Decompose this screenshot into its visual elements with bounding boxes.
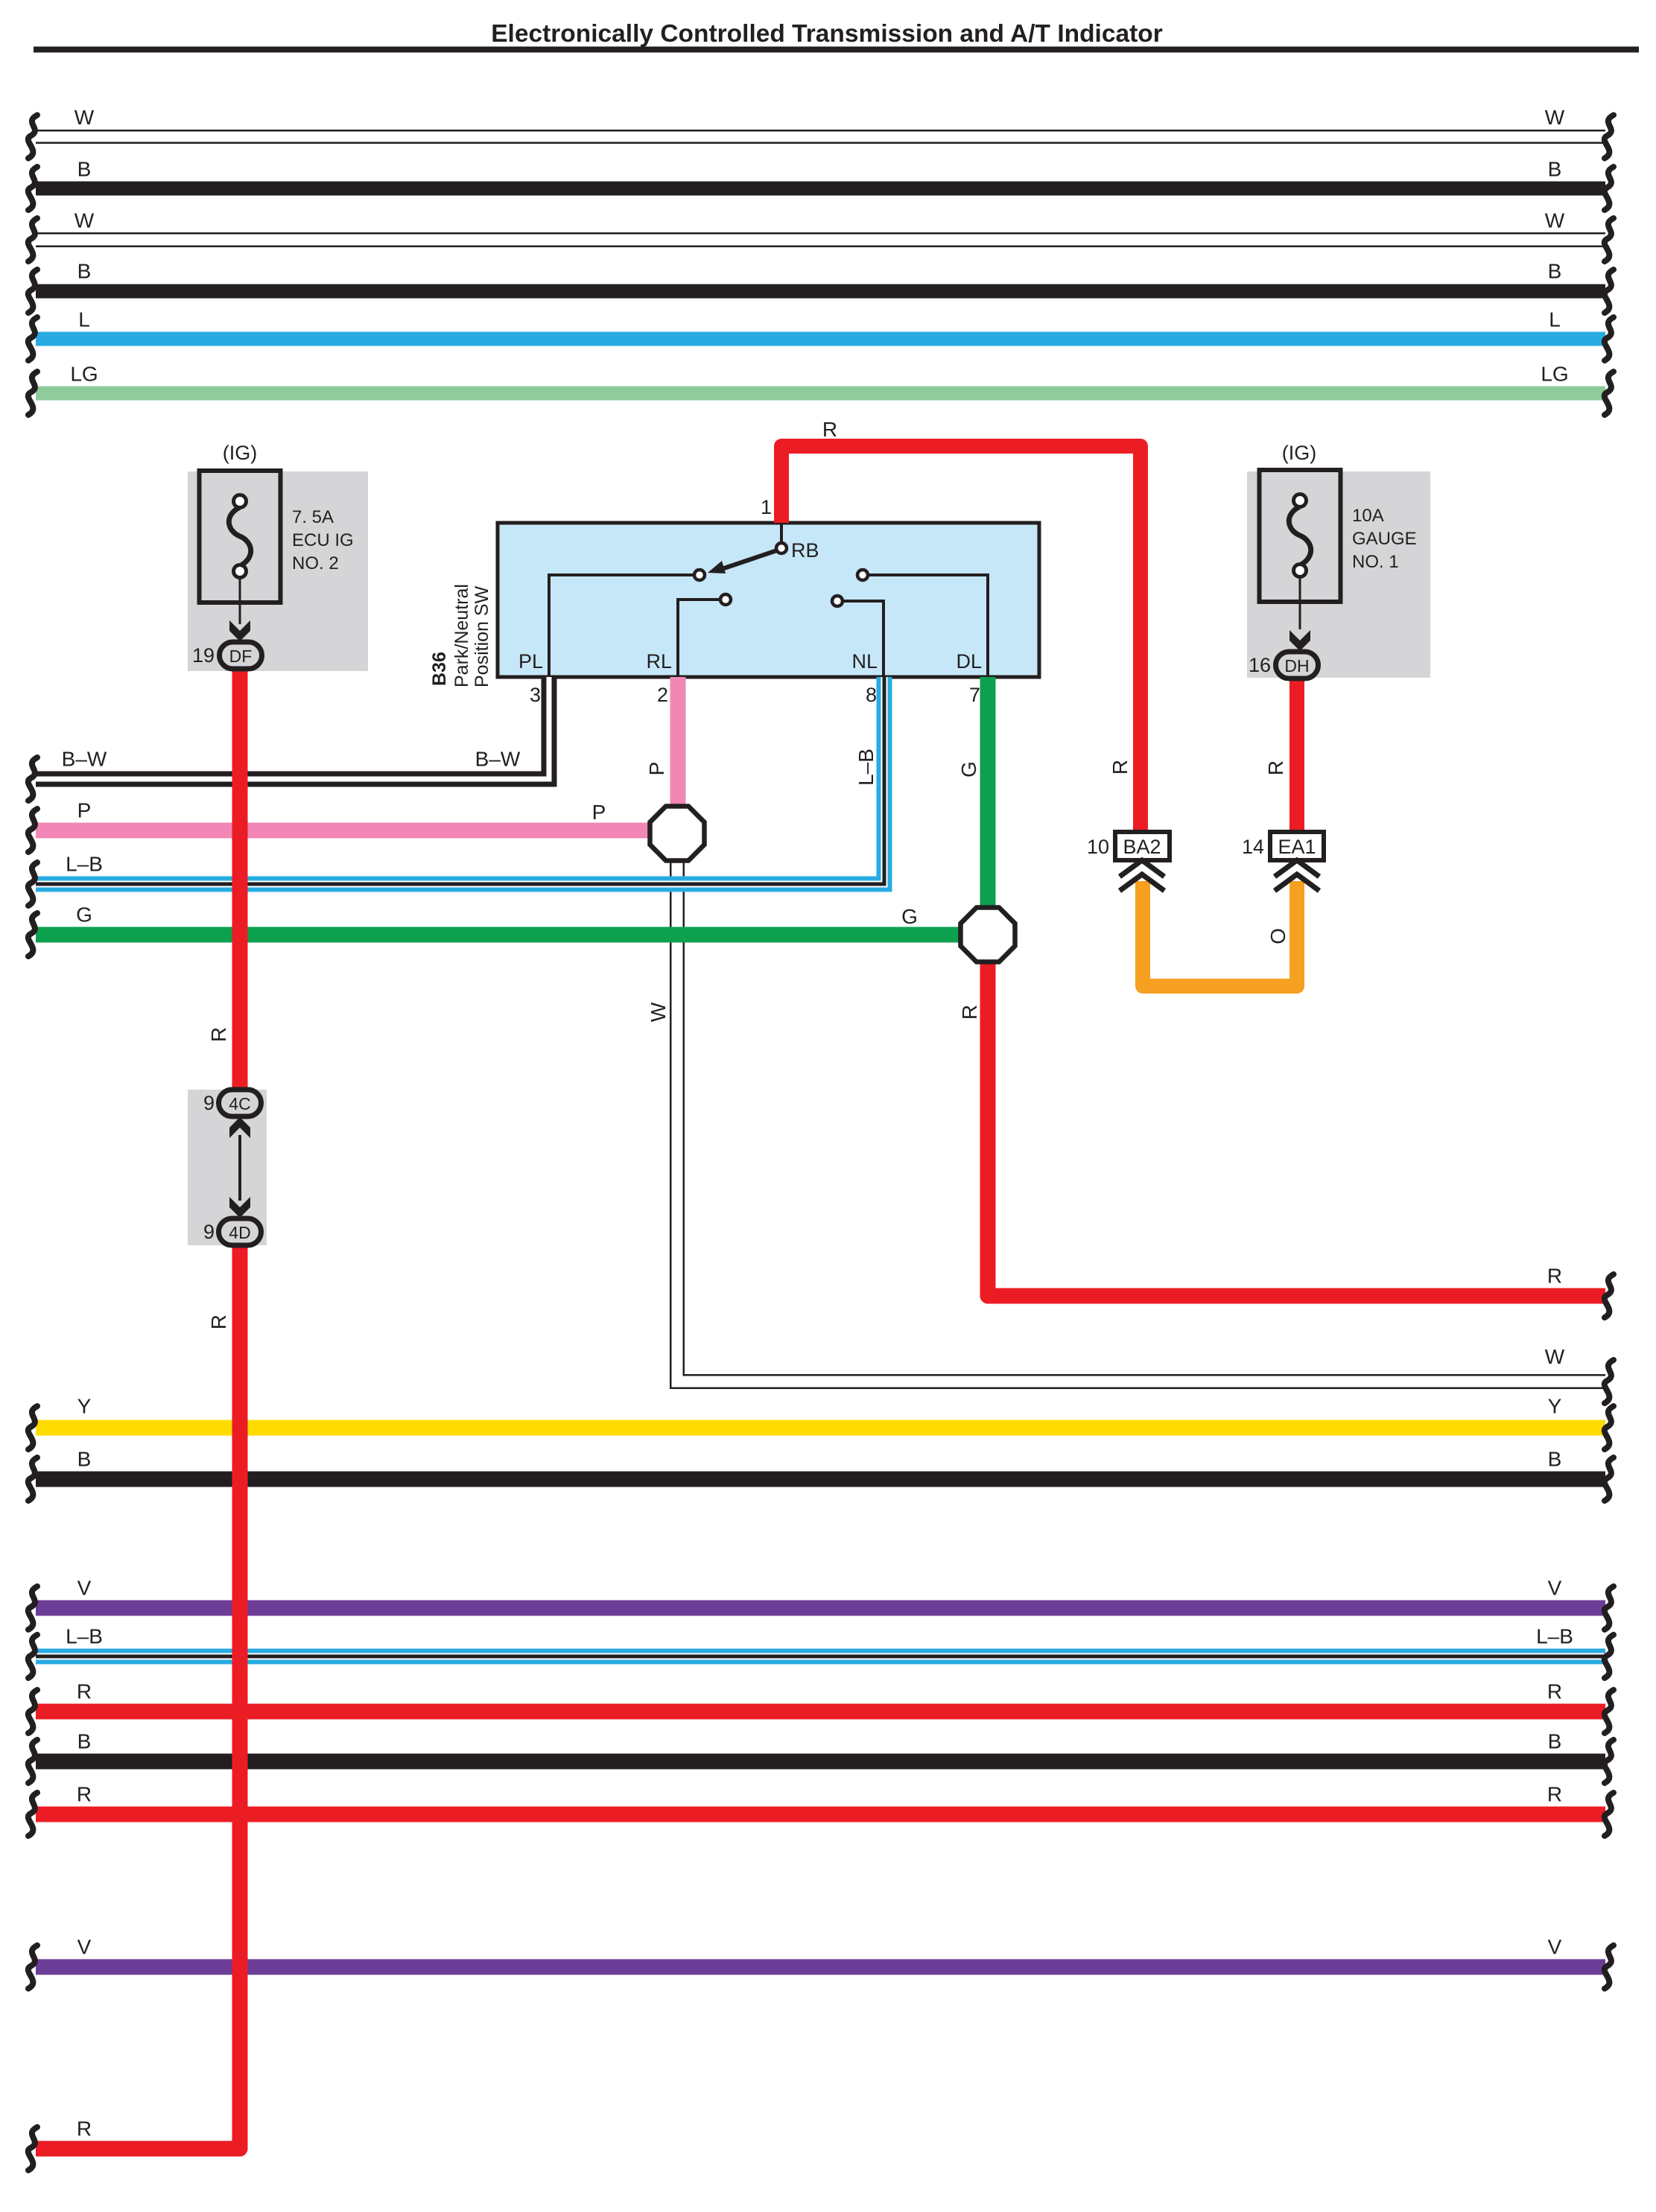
- svg-text:Park/Neutral: Park/Neutral: [451, 584, 472, 687]
- wire P from switch pin 2 to splice: [670, 677, 686, 810]
- wire R from switch pin 1 to connector BA2: [781, 446, 1141, 832]
- svg-text:B–W: B–W: [62, 748, 107, 771]
- title rule: [34, 47, 1639, 53]
- switch internal wire to pin NL: [844, 601, 883, 677]
- arrow up below 4C: [229, 1117, 250, 1138]
- svg-text:V: V: [77, 1936, 92, 1959]
- wire B-W bus from left edge to switch pin 3: [36, 677, 549, 779]
- wire Y bus: [36, 1420, 1605, 1436]
- wire break squiggle (R left): [28, 2127, 37, 2170]
- wire B bus (lower 2): [36, 1754, 1605, 1770]
- contact circle DL: [857, 570, 868, 580]
- switch arm arrowhead: [708, 561, 726, 573]
- connector 9 4D: [219, 1218, 261, 1245]
- svg-text:NL: NL: [851, 650, 878, 673]
- fuse 10A GAUGE NO.1: [1260, 470, 1341, 602]
- wire break squiggle (LG left): [28, 372, 37, 415]
- svg-text:Electronically Controlled Tran: Electronically Controlled Transmission a…: [491, 20, 1163, 48]
- chevrons below BA2: [1120, 860, 1164, 877]
- splice (octagon) P/W junction: [650, 807, 705, 861]
- wire V bus (upper): [36, 1601, 1605, 1616]
- svg-text:B–W: B–W: [475, 748, 521, 771]
- gray background behind fuse ECU IG NO.2: [188, 471, 368, 671]
- switch B36 Park/Neutral Position SW body: [498, 523, 1039, 677]
- svg-text:B: B: [1548, 1730, 1562, 1753]
- wire V bus (lower): [36, 1960, 1605, 1975]
- arrow down above 4D: [229, 1197, 250, 1218]
- wire break squiggle (W right): [1605, 1360, 1614, 1403]
- wire LG bus: [36, 387, 1605, 401]
- switch arm from RB: [720, 550, 777, 570]
- wire break squiggle (R right): [1605, 1690, 1614, 1733]
- svg-text:8: 8: [866, 684, 877, 706]
- wire break squiggle (B right): [1605, 270, 1614, 313]
- svg-text:W: W: [74, 106, 95, 129]
- svg-text:B: B: [1548, 260, 1562, 283]
- contact circle RB: [776, 543, 787, 553]
- wire break squiggle (Y right): [1605, 1406, 1614, 1449]
- wire break squiggle (W right): [1605, 218, 1614, 261]
- svg-text:R: R: [207, 1027, 230, 1042]
- svg-text:R: R: [77, 1680, 92, 1703]
- wire break squiggle (B right): [1605, 1740, 1614, 1783]
- svg-text:DF: DF: [229, 646, 253, 666]
- wire L-B bus from left edge to switch pin 8: [36, 677, 884, 884]
- wire R bus (lower 2): [36, 1807, 1605, 1822]
- svg-text:V: V: [1548, 1577, 1562, 1600]
- svg-text:9: 9: [203, 1221, 215, 1243]
- wire W from splice to right edge: [677, 856, 1605, 1382]
- svg-text:V: V: [1548, 1936, 1562, 1959]
- svg-text:EA1: EA1: [1278, 836, 1316, 858]
- svg-text:B: B: [1548, 1448, 1562, 1471]
- svg-text:R: R: [1108, 760, 1132, 775]
- contact circle NL: [832, 596, 843, 606]
- wire break squiggle (Y left): [28, 1406, 37, 1449]
- chevrons below EA1: [1275, 860, 1319, 877]
- svg-text:4D: 4D: [229, 1223, 250, 1242]
- svg-text:7. 5A: 7. 5A: [292, 507, 334, 527]
- svg-text:B36: B36: [429, 652, 450, 686]
- wire R from connector DH to connector EA1: [1289, 678, 1304, 832]
- svg-text:B: B: [77, 1730, 92, 1753]
- wire break squiggle (B right): [1605, 1458, 1614, 1501]
- svg-text:NO. 2: NO. 2: [292, 553, 339, 573]
- svg-text:G: G: [901, 905, 918, 928]
- gray background behind connectors 4C/4D: [188, 1090, 267, 1245]
- arrowhead into DF: [229, 620, 250, 641]
- svg-text:4C: 4C: [229, 1094, 250, 1113]
- wire R bus (lower 1): [36, 1704, 1605, 1720]
- svg-text:BA2: BA2: [1123, 836, 1161, 858]
- svg-text:R: R: [1547, 1680, 1562, 1703]
- wire R from splice to right edge: [988, 959, 1605, 1296]
- contact circle PL: [694, 570, 705, 580]
- connector 10 BA2: [1115, 832, 1170, 860]
- svg-text:W: W: [1545, 1345, 1565, 1368]
- svg-text:9: 9: [203, 1092, 215, 1114]
- svg-text:R: R: [207, 1315, 230, 1329]
- wire break squiggle (L-B left): [28, 1635, 37, 1678]
- svg-text:L–B: L–B: [1536, 1625, 1573, 1648]
- svg-text:7: 7: [969, 684, 980, 706]
- splice (octagon) G/R junction: [961, 908, 1015, 962]
- wire break squiggle (R right): [1605, 1274, 1614, 1318]
- wire R from connector DF to connector 4C: [232, 667, 248, 1090]
- wire B bus (lower 1): [36, 1472, 1605, 1487]
- svg-text:14: 14: [1242, 836, 1264, 858]
- svg-text:L: L: [78, 308, 90, 331]
- wire B bus (top 4): [36, 285, 1605, 299]
- svg-text:R: R: [1264, 760, 1287, 775]
- wire break squiggle (B-W left): [28, 757, 37, 801]
- svg-text:2: 2: [657, 684, 668, 706]
- connector 16 DH: [1276, 652, 1319, 678]
- svg-text:ECU IG: ECU IG: [292, 530, 354, 550]
- svg-text:Y: Y: [77, 1395, 92, 1418]
- svg-text:RB: RB: [791, 539, 819, 562]
- svg-text:W: W: [1545, 209, 1565, 232]
- wire break squiggle (B left): [28, 167, 37, 210]
- wire break squiggle (V left): [28, 1586, 37, 1630]
- svg-text:R: R: [77, 2117, 92, 2141]
- arrow shaft between 4C and 4D: [238, 1135, 241, 1201]
- wire break squiggle (R left): [28, 1690, 37, 1733]
- wire L-B bus (lower): [36, 1649, 1605, 1665]
- svg-text:Y: Y: [1548, 1395, 1562, 1418]
- wire break squiggle (B left): [28, 1458, 37, 1501]
- svg-text:O: O: [1266, 928, 1289, 944]
- svg-text:3: 3: [530, 684, 541, 706]
- wire G bus from left edge to splice: [36, 927, 965, 943]
- svg-text:G: G: [957, 761, 980, 778]
- svg-text:B: B: [77, 260, 92, 283]
- fuse 7.5A ECU IG NO.2: [200, 471, 281, 603]
- wire break squiggle (W left): [28, 218, 37, 261]
- svg-text:LG: LG: [70, 363, 98, 386]
- svg-text:B: B: [77, 1448, 92, 1471]
- wire break squiggle (L right): [1605, 317, 1614, 360]
- switch internal wire pin 1 to RB contact: [780, 523, 783, 542]
- svg-text:R: R: [77, 1783, 92, 1806]
- gray background behind fuse GAUGE NO.1: [1247, 471, 1430, 678]
- wire B bus (top 2): [36, 182, 1605, 196]
- svg-text:L–B: L–B: [66, 1625, 103, 1648]
- wire break squiggle (B left): [28, 1740, 37, 1783]
- wire W bus (top 1): [36, 130, 1605, 144]
- wire break squiggle (W left): [28, 115, 37, 159]
- svg-text:Position SW: Position SW: [472, 585, 492, 687]
- svg-text:W: W: [647, 1002, 670, 1022]
- svg-text:DH: DH: [1284, 656, 1309, 676]
- wire break squiggle (L-B left): [28, 862, 37, 906]
- wire G from switch pin 7 to splice: [980, 677, 996, 912]
- connector 14 EA1: [1270, 832, 1324, 860]
- svg-text:L–B: L–B: [854, 749, 878, 786]
- svg-text:P: P: [592, 801, 606, 824]
- connector 19 DF: [220, 642, 262, 669]
- svg-text:RL: RL: [646, 650, 672, 673]
- wire break squiggle (R right): [1605, 1793, 1614, 1836]
- wire O jumper from BA2 to EA1: [1143, 881, 1297, 986]
- wire break squiggle (V right): [1605, 1945, 1614, 1989]
- wire break squiggle (V left): [28, 1945, 37, 1989]
- svg-text:R: R: [822, 418, 837, 441]
- wire P bus from left edge to splice: [36, 823, 654, 839]
- arrowhead into DH: [1289, 630, 1310, 651]
- wire break squiggle (B left): [28, 270, 37, 313]
- svg-text:19: 19: [192, 644, 215, 667]
- wire break squiggle (L-B right): [1605, 1635, 1614, 1678]
- svg-text:V: V: [77, 1577, 92, 1600]
- svg-text:10: 10: [1087, 836, 1109, 858]
- wire break squiggle (B right): [1605, 167, 1614, 210]
- wire break squiggle (V right): [1605, 1586, 1614, 1630]
- svg-text:B: B: [77, 158, 92, 181]
- wire R from connector 4D to left edge (bottom): [36, 1244, 240, 2149]
- switch internal wire to pin DL: [869, 575, 988, 677]
- wire break squiggle (G left): [28, 913, 37, 956]
- wire break squiggle (LG right): [1605, 372, 1614, 415]
- wire break squiggle (W right): [1605, 115, 1614, 159]
- svg-text:P: P: [77, 799, 92, 822]
- wire break squiggle (P left): [28, 809, 37, 852]
- svg-text:G: G: [76, 903, 92, 927]
- wire L bus: [36, 332, 1605, 346]
- svg-text:LG: LG: [1541, 363, 1568, 386]
- svg-text:1: 1: [761, 496, 772, 518]
- svg-text:16: 16: [1249, 654, 1271, 676]
- svg-text:L: L: [1549, 308, 1561, 331]
- switch internal wire to pin RL: [678, 600, 719, 677]
- svg-text:(IG): (IG): [1282, 442, 1317, 464]
- svg-text:L–B: L–B: [66, 853, 103, 876]
- svg-text:NO. 1: NO. 1: [1352, 552, 1399, 572]
- wire W bus (top 3): [36, 232, 1605, 247]
- wire break squiggle (R left): [28, 1793, 37, 1836]
- wire break squiggle (L left): [28, 317, 37, 360]
- svg-text:(IG): (IG): [223, 442, 258, 464]
- svg-text:10A: 10A: [1352, 506, 1384, 526]
- svg-text:DL: DL: [956, 650, 982, 673]
- svg-text:W: W: [74, 209, 95, 232]
- wire from fuse to connector DF: [239, 577, 241, 624]
- wire from fuse to connector DH: [1299, 576, 1301, 629]
- switch internal wire to pin PL: [549, 575, 693, 677]
- svg-text:R: R: [1547, 1783, 1562, 1806]
- svg-text:R: R: [1547, 1265, 1562, 1288]
- connector 9 4C: [219, 1090, 261, 1116]
- svg-text:B: B: [1548, 158, 1562, 181]
- svg-text:W: W: [1545, 106, 1565, 129]
- svg-text:PL: PL: [518, 650, 543, 673]
- svg-text:R: R: [958, 1005, 981, 1020]
- contact circle RL: [720, 594, 731, 605]
- svg-text:GAUGE: GAUGE: [1352, 529, 1417, 549]
- svg-text:P: P: [645, 762, 668, 776]
